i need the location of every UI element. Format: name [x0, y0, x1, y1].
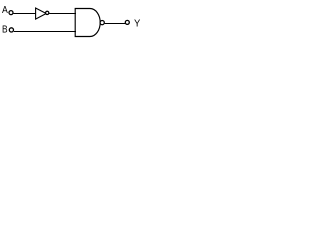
svg-text:B: B: [2, 25, 8, 36]
svg-text:Y: Y: [134, 19, 141, 30]
svg-text:A: A: [2, 5, 8, 16]
